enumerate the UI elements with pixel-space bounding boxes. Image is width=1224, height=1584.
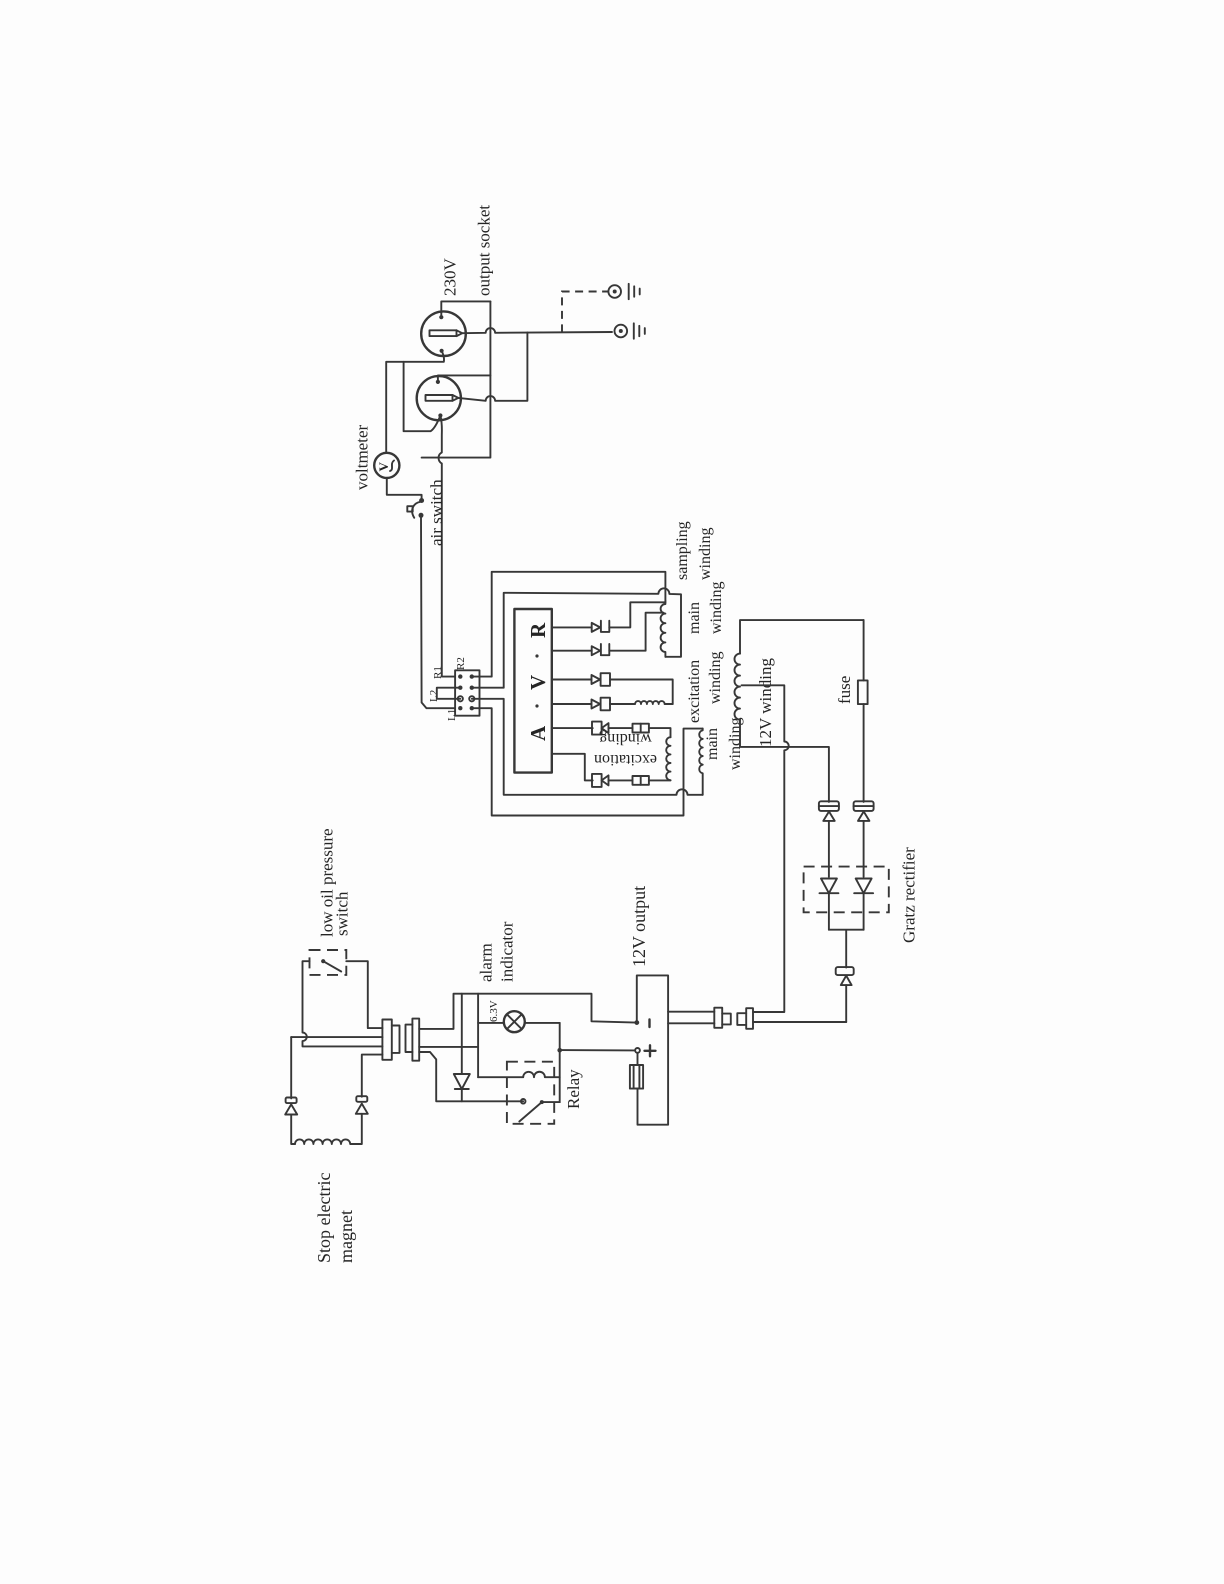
svg-text:winding: winding — [697, 528, 714, 580]
earth ground E1 — [608, 284, 639, 299]
connector X1 — [382, 1019, 419, 1061]
main winding coil — [699, 729, 702, 795]
excitation loop coil — [666, 737, 670, 780]
alarm indicator lamp HL — [504, 1011, 525, 1032]
svg-text:V: V — [526, 675, 550, 690]
label 12V output — [629, 886, 649, 967]
socket SK2 230V output — [417, 376, 461, 420]
bus from socket tops down to air switch — [422, 301, 491, 457]
label plus — [645, 1045, 656, 1056]
breakdown diode VD2 — [854, 801, 874, 877]
svg-text:R2: R2 — [455, 657, 467, 670]
jumper L2 rows 2-3 — [437, 688, 461, 699]
svg-text:Stop electric: Stop electric — [314, 1173, 334, 1263]
connector X2 — [714, 1008, 753, 1029]
wire lamp top branch — [478, 1022, 560, 1024]
relay coil — [478, 1072, 560, 1077]
Gratz diode VD4 — [854, 879, 873, 930]
12V winding coil — [735, 654, 741, 720]
air switch breaker QF — [407, 498, 424, 518]
svg-text:A: A — [526, 725, 550, 741]
svg-text:main: main — [686, 602, 703, 634]
voltmeter V — [374, 453, 399, 478]
svg-text:winding: winding — [707, 652, 724, 704]
label voltmeter — [353, 425, 372, 490]
wire connector to relay contact — [419, 1052, 523, 1101]
wire Gratz output bar — [829, 930, 864, 968]
branch 2 with diode D2 — [552, 613, 664, 656]
freewheel diode VD6 — [454, 994, 470, 1102]
wire row2 to inner loop top — [472, 588, 681, 687]
svg-text:winding: winding — [599, 730, 651, 747]
label 12V winding — [756, 658, 775, 747]
socket SK1 230V output — [421, 311, 466, 356]
svg-text:excitation: excitation — [686, 660, 703, 723]
wire voltmeter bottom to air switch — [387, 478, 422, 498]
label excitation winding inside loop — [594, 730, 657, 768]
label R1 — [432, 666, 444, 679]
label excitation winding outer — [686, 652, 724, 723]
label sampling winding — [674, 521, 714, 580]
label alarm indicator — [477, 921, 517, 982]
svg-text:V: V — [376, 462, 391, 472]
svg-text:L2: L2 — [428, 690, 440, 702]
wire SK2 bottom pin to tie line — [404, 362, 441, 431]
svg-text:air switch: air switch — [427, 479, 446, 546]
fuse F1 — [858, 620, 868, 802]
label air switch — [427, 479, 446, 546]
breakdown diode VD7 — [285, 1098, 297, 1145]
svg-text:output socket: output socket — [475, 205, 494, 296]
regulator U1 A.V.R box — [514, 609, 551, 773]
label Relay — [564, 1069, 583, 1109]
breakdown diode VD8 — [356, 1055, 383, 1144]
svg-text:winding: winding — [727, 718, 744, 770]
svg-text:excitation: excitation — [594, 751, 657, 768]
svg-text:alarm: alarm — [477, 943, 496, 982]
label Stop electric magnet — [314, 1173, 356, 1263]
label main winding upper — [686, 582, 725, 634]
svg-text:Gratz rectifier: Gratz rectifier — [900, 847, 919, 943]
wire connector to lamp loop — [419, 1046, 478, 1048]
stop electric magnet coil — [295, 1139, 358, 1144]
svg-text:indicator: indicator — [498, 921, 517, 982]
wire row1 R1 to winding loop top — [472, 572, 666, 677]
label 230V output socket — [441, 205, 494, 296]
sampling winding coil — [661, 601, 666, 657]
wire SK1 bottom pin to tie line — [386, 351, 444, 453]
branch 5 with diode D5 and resistor — [552, 722, 671, 738]
branch 6 with diode D6 and resistor — [552, 754, 671, 787]
svg-text:12V output: 12V output — [629, 886, 649, 967]
wire SK2 top pin to bus — [438, 375, 491, 382]
breakdown diode VD5 — [836, 967, 854, 1022]
wire 12V top to fuse branch — [740, 620, 864, 654]
wire air switch down to terminal L1 — [421, 518, 455, 709]
wire sockets right pins to earth — [462, 328, 612, 333]
label L1 — [446, 709, 458, 721]
svg-text:12V winding: 12V winding — [756, 658, 775, 747]
wire plus from relay bus to battery — [557, 1048, 635, 1053]
wire 12V center tap down to connector (hops output wire) — [742, 685, 789, 1012]
Gratz diode VD3 — [820, 879, 839, 930]
svg-text:Relay: Relay — [564, 1069, 583, 1109]
low oil pressure switch SP dashed box — [310, 950, 347, 975]
wire minus bus from connector to battery — [419, 994, 637, 1029]
Gratz rectifier dashed box — [804, 867, 889, 913]
earth ground E2 — [615, 323, 645, 338]
wire stop magnet branch to connector — [291, 1036, 382, 1038]
svg-text:6.3V: 6.3V — [488, 1000, 500, 1022]
dashed wire to earth E1 — [562, 292, 608, 333]
label minus — [648, 1020, 650, 1028]
svg-text:fuse: fuse — [835, 676, 854, 704]
wire row3 down to inner loop bottom — [472, 699, 703, 795]
svg-text:magnet: magnet — [336, 1210, 356, 1263]
wire row4 down to outer loop bottom — [472, 708, 703, 815]
svg-text:switch: switch — [333, 891, 352, 936]
wire SK2 right pin up to earth wire — [458, 332, 527, 400]
label main winding lower — [704, 718, 744, 770]
branch 4 with diode D4 and excitation coil — [552, 698, 673, 711]
breakdown diode VD1 — [819, 801, 839, 877]
wire SK1 top pin to bus — [441, 301, 490, 317]
svg-text:L1: L1 — [446, 709, 458, 721]
wire oil switch right to connector — [346, 961, 382, 1028]
label 6.3V — [488, 1000, 500, 1022]
label Gratz rectifier — [900, 847, 919, 943]
label L2 — [428, 690, 440, 702]
wire 12V output box to connector top — [668, 1011, 714, 1013]
12V output battery box — [634, 975, 668, 1124]
svg-text:voltmeter: voltmeter — [353, 425, 372, 490]
relay dashed box — [507, 1062, 554, 1124]
wire lamp loop right vertical — [559, 1023, 561, 1102]
svg-text:R: R — [526, 622, 550, 638]
wire Gratz output to connector — [753, 1021, 846, 1023]
label R2 — [455, 657, 467, 670]
wire 12V output box to connector bottom — [668, 1022, 714, 1024]
fuse F2 in battery plus lead — [630, 1053, 643, 1089]
branch 1 with diode D1 — [552, 602, 666, 632]
relay switch contacts — [519, 1099, 559, 1122]
svg-text:sampling: sampling — [674, 521, 691, 580]
terminal strip TB — [455, 670, 479, 715]
wire 12V bottom to Gratz left branch — [740, 720, 829, 802]
svg-text:main: main — [704, 728, 721, 760]
wire SK2 bottom pin down to terminal R1 (hops air-switch feed) — [439, 416, 456, 677]
label low oil pressure switch — [318, 828, 352, 937]
wire oil switch left down (hops) to connector — [303, 961, 383, 1046]
svg-text:230V: 230V — [441, 258, 460, 297]
label fuse — [835, 676, 854, 704]
svg-text:winding: winding — [708, 582, 725, 634]
svg-text:R1: R1 — [432, 666, 444, 679]
wire lamp loop left vertical — [477, 994, 479, 1077]
branch 3 with diode D3 — [552, 673, 673, 704]
wire down to diode VD7 — [290, 1037, 292, 1098]
